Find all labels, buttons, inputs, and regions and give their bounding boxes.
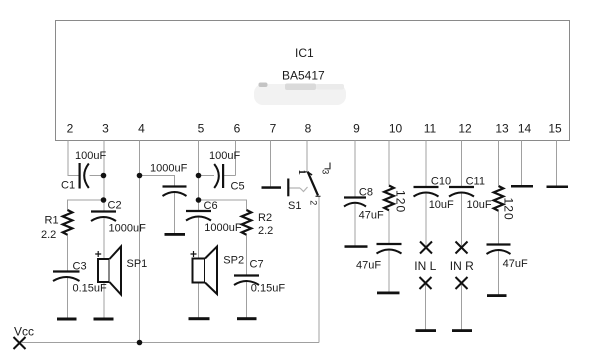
terminal pin7 (262, 186, 282, 189)
svg-text:2: 2 (309, 200, 319, 205)
wire C10 to port INL (425, 193, 427, 248)
svg-text:C7: C7 (250, 258, 264, 270)
ground under SP2 (189, 317, 210, 320)
wire pin15 to terminal (556, 141, 558, 187)
wire pin12 to C11 (461, 141, 463, 187)
svg-text:C5: C5 (231, 181, 245, 193)
ground under cap pin13 (487, 294, 507, 297)
svg-text:C6: C6 (204, 200, 218, 212)
svg-text:47uF: 47uF (359, 209, 384, 221)
svg-text:47uF: 47uF (503, 258, 528, 270)
svg-text:C8: C8 (359, 186, 373, 198)
wire C1 to pin3 node (90, 175, 105, 177)
svg-text:Vcc: Vcc (14, 325, 34, 339)
port IN R lower X (456, 277, 468, 289)
svg-text:47uF: 47uF (356, 259, 381, 271)
wire pin4 to Vcc rail (139, 141, 141, 343)
svg-text:R1: R1 (45, 215, 59, 227)
svg-text:14: 14 (518, 122, 532, 136)
wire R3 to cap (388, 211, 390, 244)
svg-text:C1: C1 (61, 180, 75, 192)
svg-text:SP1: SP1 (127, 258, 148, 270)
port IN L lower X (420, 277, 432, 289)
wire SP1 to ground (103, 282, 105, 318)
svg-text:3: 3 (320, 169, 330, 174)
capacitor C5 (214, 164, 223, 188)
wire C6 to SP2 (198, 216, 200, 259)
wire pin14 to terminal (521, 141, 523, 186)
speaker SP1 (95, 247, 121, 295)
capacitor C1 (80, 163, 89, 189)
svg-text:12: 12 (458, 122, 472, 136)
svg-text:C10: C10 (431, 176, 451, 188)
svg-text:9: 9 (353, 122, 360, 136)
wire C5 to pin6 (224, 175, 236, 177)
svg-text:IN R: IN R (450, 259, 474, 273)
port Vcc (14, 337, 26, 349)
svg-text:7: 7 (270, 122, 277, 136)
ground under INR (452, 329, 472, 332)
svg-text:SP2: SP2 (223, 255, 244, 267)
svg-text:R2: R2 (258, 212, 272, 224)
svg-text:15: 15 (548, 122, 562, 136)
svg-text:S1: S1 (288, 200, 301, 212)
wire pin7 to terminal (270, 141, 272, 188)
junction node pin4-Vcc rail (137, 340, 143, 346)
wire SP2 to ground (198, 283, 200, 319)
blurred watermark (254, 83, 346, 106)
resistor 120 pin13 (494, 186, 504, 211)
svg-text:2.2: 2.2 (258, 225, 273, 237)
capacitor 47uF pin13 (487, 245, 511, 255)
svg-text:11: 11 (424, 122, 437, 136)
ground under bypass cap (165, 233, 186, 236)
wire Vcc rail (22, 342, 319, 344)
capacitor C3 (53, 272, 80, 282)
resistor R1 (63, 210, 73, 235)
svg-text:1: 1 (297, 170, 307, 175)
junction node pin3-R1-C2 (101, 197, 107, 203)
wire node3 to R1 (68, 200, 105, 211)
junction node pin5-R2-C6 (196, 197, 202, 203)
terminal pin14 (511, 185, 533, 188)
svg-text:3: 3 (102, 122, 109, 136)
terminal pin15 (547, 186, 569, 189)
wire pin13 to R4 (498, 141, 500, 186)
junction node pin5-C5 (196, 173, 202, 179)
ground under SP1 (94, 318, 114, 321)
wire pin11 to C10 (425, 141, 427, 187)
svg-text:2.2: 2.2 (41, 229, 56, 241)
svg-text:C3: C3 (73, 261, 87, 273)
resistor R2 (242, 210, 252, 235)
junction node pin3-C1 (101, 173, 107, 179)
svg-text:C11: C11 (466, 176, 485, 188)
wire pin10 to R3 (388, 141, 390, 186)
svg-text:4: 4 (138, 122, 145, 136)
wire node5 to C5 (199, 175, 215, 177)
wire C3 to ground (67, 276, 69, 318)
svg-text:100uF: 100uF (75, 150, 106, 162)
resistor 120 pin10 (384, 186, 394, 211)
capacitor C4 bypass 1000uF (163, 187, 187, 197)
wire C2 to SP1 (103, 216, 105, 259)
wire C8 to terminal (354, 203, 356, 247)
svg-text:5: 5 (198, 122, 205, 136)
ground under cap pin10 (377, 292, 400, 295)
wire node5 to R2 (199, 200, 247, 211)
svg-text:1000uF: 1000uF (204, 222, 242, 234)
svg-text:10: 10 (389, 122, 403, 136)
wire port INL return to ground (425, 283, 427, 330)
svg-text:0.15uF: 0.15uF (251, 283, 286, 295)
svg-text:100uF: 100uF (209, 150, 240, 162)
terminal under C8 (345, 245, 368, 248)
svg-text:0.15uF: 0.15uF (73, 282, 108, 294)
svg-text:IC1: IC1 (295, 46, 314, 60)
svg-text:6: 6 (234, 122, 241, 136)
svg-text:1000uF: 1000uF (150, 163, 188, 175)
switch S1 (288, 163, 330, 197)
capacitor 47uF pin10 (377, 244, 402, 254)
svg-text:2: 2 (67, 122, 74, 136)
wire pin8 to switch (306, 141, 308, 173)
ground under C7 (237, 317, 257, 320)
port IN L upper X (420, 242, 432, 254)
wire pin4 node to bypass cap (140, 176, 175, 187)
svg-text:C2: C2 (108, 200, 122, 212)
capacitor C10 (414, 187, 439, 197)
capacitor C7 (234, 276, 259, 286)
wire C11 to port INR (461, 193, 463, 248)
wire switch to Vcc rail (318, 197, 320, 343)
wire pin6 (235, 141, 237, 176)
svg-text:120: 120 (394, 190, 408, 213)
wire bypass cap to ground (174, 192, 176, 234)
junction node pin4-bypass (137, 173, 143, 179)
svg-text:13: 13 (495, 122, 509, 136)
svg-text:120: 120 (502, 198, 516, 221)
IC IC1 box (56, 21, 570, 141)
ground under INL (416, 329, 437, 332)
wire pin9 to C8 (354, 141, 356, 198)
wire pin2 to C1 (68, 141, 79, 176)
wire cap to ground (388, 250, 390, 293)
wire pin3 to C2 (103, 141, 105, 212)
svg-text:10uF: 10uF (429, 199, 454, 211)
svg-text:IN L: IN L (414, 259, 436, 273)
wire pin5 to C6 (198, 141, 200, 211)
capacitor C8 (344, 198, 366, 207)
capacitor C2 (91, 212, 116, 222)
svg-text:1000uF: 1000uF (109, 223, 147, 235)
port IN R upper X (456, 242, 468, 254)
wire port INR return to ground (461, 283, 463, 330)
capacitor C11 (449, 187, 474, 197)
svg-text:BA5417: BA5417 (282, 69, 325, 83)
wire R1 to C3 (67, 235, 69, 272)
wire cap13 to ground (498, 250, 500, 295)
svg-text:8: 8 (305, 122, 312, 136)
wire R2 to C7 (246, 235, 248, 275)
speaker SP2 (191, 247, 218, 295)
svg-text:10uF: 10uF (467, 199, 492, 211)
wire R4 to cap (498, 211, 500, 244)
ground under C3 (57, 318, 77, 321)
wire C7 to ground (246, 281, 248, 319)
capacitor C6 (186, 211, 211, 221)
